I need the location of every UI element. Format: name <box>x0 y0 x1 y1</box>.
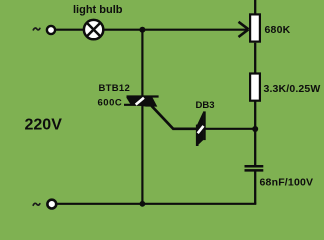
svg-text:3.3K/0.25W: 3.3K/0.25W <box>264 83 321 95</box>
light bulb lamp symbol <box>84 20 103 39</box>
diac DB3 <box>197 111 204 146</box>
svg-text:680K: 680K <box>265 24 291 36</box>
capacitor C1 plates <box>245 166 264 170</box>
wire pot to resistor <box>254 43 256 73</box>
bottom wire <box>57 203 257 205</box>
terminal top <box>47 26 55 34</box>
terminal bottom <box>47 200 56 209</box>
wire terminal to bulb <box>56 29 84 31</box>
triac gate wire <box>152 106 198 129</box>
svg-text:68nF/100V: 68nF/100V <box>260 177 314 189</box>
svg-text:600C: 600C <box>98 98 123 109</box>
wire top edge into potentiometer <box>254 0 256 14</box>
AC source tilde top <box>33 28 40 30</box>
svg-text:DB3: DB3 <box>196 100 215 111</box>
svg-text:220V: 220V <box>25 117 63 134</box>
resistor 3.3K body <box>250 74 260 101</box>
wire resistor to capacitor <box>254 102 256 166</box>
junction node bottom <box>140 201 146 207</box>
wire triac down to bottom <box>141 106 143 204</box>
junction node right rail <box>252 126 258 132</box>
AC source tilde bottom <box>33 203 40 205</box>
wire diac to right rail <box>204 128 256 130</box>
pot wiper arrowhead <box>239 22 249 37</box>
triac Q1 <box>124 97 159 107</box>
wire bulb to pot arrow <box>104 29 248 31</box>
svg-text:light bulb: light bulb <box>73 4 123 16</box>
wire junction down to triac <box>141 30 143 97</box>
junction node top <box>139 27 145 33</box>
wire capacitor to bottom wire <box>254 172 256 204</box>
svg-text:BTB12: BTB12 <box>99 83 131 94</box>
potentiometer 680K body <box>250 14 260 41</box>
